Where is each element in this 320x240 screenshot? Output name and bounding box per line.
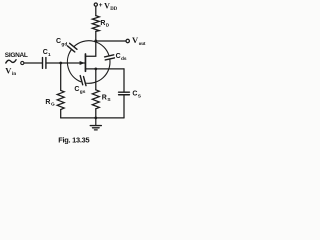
svg-text:gs: gs bbox=[80, 90, 86, 95]
wire C1 to gate bbox=[47, 62, 85, 64]
transistor Q1 drain lead bbox=[85, 41, 95, 56]
Vout terminal bbox=[126, 39, 129, 42]
svg-text:out: out bbox=[139, 42, 146, 47]
transistor envelope arc left (Cgs to gate to Cgd) bbox=[67, 50, 80, 82]
svg-text:G: G bbox=[51, 102, 55, 108]
wire input terminal to C1 bbox=[24, 62, 42, 64]
resistor RS bbox=[92, 90, 99, 109]
wire RG to bottom rail bbox=[60, 110, 62, 118]
transistor envelope arc right (Cds to source side) bbox=[85, 60, 110, 84]
svg-text:C: C bbox=[56, 38, 61, 45]
wire source node down to RS bbox=[95, 69, 97, 90]
svg-text:C: C bbox=[74, 86, 79, 93]
capacitor Cgd plates bbox=[67, 43, 77, 52]
node drain junction dot bbox=[94, 40, 97, 43]
capacitor Cds plates bbox=[105, 55, 115, 60]
node source junction dot bbox=[94, 68, 97, 71]
svg-text:+: + bbox=[99, 2, 103, 9]
svg-text:D: D bbox=[106, 23, 110, 29]
wire CS to bottom rail bbox=[123, 95, 125, 118]
capacitor Cgs plates bbox=[80, 76, 86, 86]
resistor RD bbox=[92, 16, 99, 32]
svg-text:Fig. 13.35: Fig. 13.35 bbox=[58, 135, 89, 144]
node bottom rail junction dot bbox=[94, 117, 97, 120]
signal source terminal bbox=[21, 61, 24, 64]
VDD supply terminal bbox=[94, 3, 97, 6]
svg-text:gd: gd bbox=[61, 41, 67, 47]
svg-text:DD: DD bbox=[110, 7, 117, 12]
svg-text:C: C bbox=[116, 53, 121, 60]
ground bbox=[90, 118, 101, 130]
svg-text:R: R bbox=[102, 94, 107, 101]
wire drain node to Vout bbox=[96, 40, 126, 42]
svg-text:R: R bbox=[45, 99, 50, 106]
svg-text:1: 1 bbox=[48, 52, 51, 58]
svg-text:C: C bbox=[132, 91, 137, 98]
transistor Q1 source lead / wire to CS bbox=[85, 68, 124, 70]
capacitor C1 bbox=[43, 58, 46, 69]
wire RS to bottom rail bbox=[95, 109, 97, 118]
bottom rail wire bbox=[61, 117, 124, 119]
wire VDD to RD bbox=[95, 6, 97, 15]
svg-text:V: V bbox=[104, 1, 110, 10]
svg-text:ds: ds bbox=[121, 56, 127, 62]
wire source wire down to CS bbox=[123, 69, 125, 92]
node gate junction dot bbox=[59, 62, 62, 65]
transistor Q1 gate arrow bbox=[80, 61, 85, 65]
capacitor CS bbox=[119, 92, 130, 95]
resistor RG bbox=[57, 90, 64, 109]
transistor envelope arc top (gate side to drain to Cds) bbox=[74, 41, 109, 56]
svg-text:SIGNAL: SIGNAL bbox=[5, 52, 28, 59]
tilde of signal source bbox=[6, 60, 16, 63]
svg-text:in: in bbox=[12, 72, 16, 77]
svg-text:R: R bbox=[100, 20, 105, 27]
wire gate node down to RG bbox=[60, 63, 62, 90]
wire RD to drain node bbox=[95, 31, 97, 41]
transistor Q1 channel bar bbox=[84, 54, 86, 71]
